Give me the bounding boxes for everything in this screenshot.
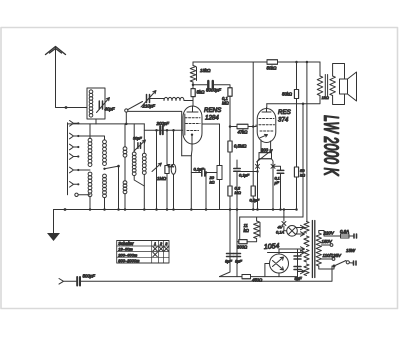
coil L2b <box>88 172 92 176</box>
svg-text:RENS: RENS <box>204 107 222 114</box>
wire cathode cap <box>273 166 281 170</box>
band switch arm S1 <box>103 168 105 170</box>
terminal 500pF input <box>59 279 77 285</box>
antenna coil L1 <box>89 90 93 94</box>
wire fuse to terminal <box>349 235 354 237</box>
wire bypass link <box>241 171 258 173</box>
wire choke to grid cap <box>184 101 193 107</box>
switch contact <box>70 154 78 160</box>
junction on ground bus <box>143 208 146 211</box>
junction on ground bus <box>166 208 169 211</box>
capacitor 8uF a <box>227 254 234 257</box>
wire HV arrows <box>289 247 305 251</box>
svg-text:200–600m: 200–600m <box>117 252 138 257</box>
junction on ground bus <box>190 208 193 211</box>
wire pickup line a <box>166 130 168 165</box>
wire L3 bottom to bus <box>104 198 106 210</box>
capacitor 0.5uF block <box>251 186 255 196</box>
svg-text:μF: μF <box>274 181 280 185</box>
output transformer secondary <box>330 76 336 96</box>
junction on ground bus <box>252 208 255 211</box>
tube RENS 1284 plate line <box>184 114 186 135</box>
wire coupling column top <box>252 62 254 127</box>
capacitor 5uF b <box>294 267 301 270</box>
trimmer capacitor 40pF <box>99 101 102 109</box>
svg-text:110/125V: 110/125V <box>323 253 343 258</box>
wire rail top to coil <box>68 123 145 125</box>
wire L4 middle <box>124 157 126 181</box>
resistor 11k zigzag <box>254 221 260 239</box>
svg-text:40pF: 40pF <box>105 107 115 112</box>
svg-text:210pF: 210pF <box>142 104 156 109</box>
capacitor 500pF <box>77 277 80 286</box>
wire B+ rail right <box>278 61 321 63</box>
capacitor 5000pF <box>208 81 213 89</box>
tube RENS 1284 envelope <box>183 106 202 144</box>
svg-text:800–2000m: 800–2000m <box>118 258 140 263</box>
svg-text:500pF: 500pF <box>83 274 96 279</box>
wire 0.5uF to bus <box>252 196 254 210</box>
svg-text:50kΩ: 50kΩ <box>282 92 293 97</box>
wire grid return riser <box>128 111 181 155</box>
junction on ground bus <box>272 208 275 211</box>
coil L3b <box>103 174 107 178</box>
svg-text:15kΩ: 15kΩ <box>200 68 211 73</box>
wire ground bus <box>54 209 297 211</box>
wire S2 drop <box>125 112 127 124</box>
wire L5 bottom merge <box>134 175 144 186</box>
tube RENS 1284 grid cap <box>187 106 198 112</box>
antenna <box>46 47 66 55</box>
switch contact <box>70 167 78 173</box>
wire L5 top <box>133 124 135 152</box>
wire rect plate <box>268 250 305 254</box>
wire rect cathode <box>265 264 270 277</box>
svg-text:220V: 220V <box>323 231 335 236</box>
tube RES 374 filament arrow <box>260 134 268 137</box>
svg-text:300Ω: 300Ω <box>237 245 248 250</box>
wire B+ rail <box>193 61 267 63</box>
switch contact <box>70 182 78 188</box>
power transformer primary <box>316 233 321 266</box>
junction on ground bus <box>103 208 106 211</box>
wire lamp feed <box>283 210 285 222</box>
svg-text:50kΩ: 50kΩ <box>267 66 278 71</box>
node cap junction <box>205 171 208 174</box>
svg-text:200pF: 200pF <box>156 121 170 126</box>
capacitor 0.1uF a <box>202 169 205 176</box>
coil L4b <box>123 181 127 185</box>
wire RES cathode leads <box>260 140 262 153</box>
junction on ground bus <box>236 208 239 211</box>
wire switch rail <box>67 123 69 195</box>
node B+ junctions <box>295 61 298 64</box>
junction on ground bus <box>124 208 127 211</box>
wire plate feed top <box>192 62 194 66</box>
svg-text:200: 200 <box>260 148 269 153</box>
wire HV arrow low <box>298 269 305 273</box>
wire ground branch <box>53 210 55 234</box>
variable resistor 1M arrow <box>152 163 162 172</box>
power transformer core <box>312 221 314 278</box>
wire speaker loop <box>333 64 345 105</box>
tube RES 374 envelope <box>257 109 276 143</box>
terminal T.A. oval <box>171 164 176 174</box>
svg-text:1284: 1284 <box>205 115 219 122</box>
switch contact top <box>70 121 78 127</box>
switch contact S2 <box>125 109 128 112</box>
wire 15k junction <box>192 82 194 89</box>
wire 0.1M down <box>229 96 231 141</box>
wire 0.5M down <box>229 152 231 186</box>
resistor 0.2M <box>228 186 232 196</box>
wire primary bottom <box>319 266 334 269</box>
power transformer HV winding <box>304 250 309 263</box>
wire RENS cathode branch <box>191 172 201 174</box>
resistor 20k <box>217 166 222 180</box>
capacitor 200pF <box>160 126 163 134</box>
wire 47k to RES grid <box>248 126 256 128</box>
wire OT primary bottom <box>267 96 320 104</box>
tube 1054 filament arrows <box>273 257 284 270</box>
tube RENS 1284 cathode <box>191 134 193 136</box>
node ground-bus junction <box>64 208 67 211</box>
wire lamp to winding a <box>296 225 305 229</box>
wire 300 left <box>237 241 239 243</box>
junction on ground bus <box>172 208 175 211</box>
resistor 50k mid <box>294 90 298 99</box>
switch table row1 crosses <box>153 247 157 251</box>
svg-text:MΩ: MΩ <box>222 101 229 106</box>
cathode bypass marks <box>256 164 260 168</box>
resistor 300 <box>239 240 247 244</box>
switch contact 2 <box>70 133 78 139</box>
wire L1 to band switch <box>95 119 97 124</box>
svg-text:kΩ: kΩ <box>244 228 250 233</box>
wire filter col a <box>220 210 231 277</box>
coil L6 <box>142 153 146 157</box>
dial lamp 4V 0.1A <box>287 226 298 237</box>
lamp cross mark <box>282 222 286 226</box>
wire coupling column bottom <box>252 127 254 187</box>
svg-text:374: 374 <box>278 117 289 124</box>
svg-text:0,1μF: 0,1μF <box>239 173 250 178</box>
junction on ground bus <box>117 208 120 211</box>
wire L6 bottom to bus <box>143 174 145 209</box>
node coupling junction <box>252 125 255 128</box>
wire RES plate <box>266 104 268 108</box>
tube RES 374 grid bar <box>262 108 271 113</box>
wire RES grid <box>255 125 257 127</box>
wire tap 150V <box>321 244 330 246</box>
variable resistor 200 <box>259 153 272 159</box>
svg-text:1054: 1054 <box>264 243 280 251</box>
svg-text:1MΩ: 1MΩ <box>157 176 167 181</box>
wire 5k to grid cap <box>192 97 194 101</box>
RF choke L7 <box>164 97 184 100</box>
wire primary top tap <box>319 231 341 237</box>
wire cap to 20k <box>205 172 217 174</box>
node 47k junction <box>229 125 232 128</box>
wire antenna lead-in <box>56 47 88 108</box>
resistor 5k <box>191 89 195 97</box>
svg-text:5kΩ: 5kΩ <box>197 90 206 95</box>
wire L4 bottom to bus <box>124 194 126 210</box>
wire 47k left <box>230 126 237 128</box>
coil L4a <box>123 147 127 151</box>
switch contact with circle <box>75 193 78 196</box>
svg-text:0,1μF: 0,1μF <box>194 167 205 172</box>
wire L2 tap <box>78 169 90 171</box>
resistor 47k <box>237 124 248 128</box>
svg-text:0,1A: 0,1A <box>276 230 285 235</box>
wire OT primary top <box>319 62 321 76</box>
wire L2 bottom to bus <box>89 197 91 210</box>
wire 5uF column <box>297 249 299 277</box>
ground <box>47 233 60 241</box>
switch table row2 cross <box>153 252 157 256</box>
svg-text:Schalter: Schalter <box>118 241 134 246</box>
wire B+ to OT area <box>302 104 304 217</box>
svg-text:kΩ: kΩ <box>210 180 215 185</box>
svg-text:RES: RES <box>278 109 292 116</box>
capacitor 0.1uF b <box>234 169 241 172</box>
wire subrail <box>240 216 303 218</box>
resistor on pickup line <box>165 166 169 174</box>
power transformer winding b <box>304 236 309 247</box>
resistor 0.5M <box>228 141 232 152</box>
wire pickup line b <box>173 130 175 164</box>
wire 0.2M to bus <box>229 196 231 210</box>
svg-text:15W: 15W <box>346 248 356 253</box>
wire rect bottom <box>278 273 280 277</box>
svg-text:0,6A: 0,6A <box>340 229 349 234</box>
wire lamp left <box>284 226 287 231</box>
tube RENS 1284 grids <box>185 118 200 131</box>
resistor 15k zigzag <box>190 66 196 83</box>
svg-text:1: 1 <box>154 242 156 246</box>
resistor 50k top <box>267 60 278 64</box>
wire 11k top <box>256 217 258 221</box>
junction on ground bus <box>295 208 298 211</box>
svg-text:MΩ: MΩ <box>235 190 241 195</box>
resistor 450 <box>242 275 251 279</box>
wire lamp to winding b <box>296 232 305 236</box>
wire coupling top <box>193 84 208 86</box>
svg-text:5000pF: 5000pF <box>206 88 221 93</box>
fuse <box>341 234 350 238</box>
junction on ground bus <box>155 208 158 211</box>
coil L3a <box>103 140 107 144</box>
junction on ground bus <box>229 208 232 211</box>
wire coupling to 0.1M <box>213 85 230 88</box>
junction on ground bus <box>89 208 92 211</box>
junction on ground bus <box>279 208 282 211</box>
wire cathode left leg <box>258 159 260 210</box>
svg-text:0,5MΩ: 0,5MΩ <box>234 144 247 149</box>
label LW 2000 K <box>319 115 342 176</box>
power transformer HV winding b <box>304 264 309 276</box>
wire screen column <box>296 62 298 90</box>
junction on ground bus <box>283 208 286 211</box>
wire 20k to bus <box>219 180 221 210</box>
capacitor 5uF a <box>294 256 301 259</box>
output transformer primary <box>317 76 323 96</box>
output transformer core <box>325 75 327 98</box>
wire tap 110V <box>321 258 332 260</box>
wire 450 rail <box>220 276 298 278</box>
switch table frame <box>117 241 169 264</box>
svg-text:8μF: 8μF <box>235 259 242 264</box>
wire subrail drop <box>239 217 241 242</box>
tube 1054 rectifier <box>270 254 289 273</box>
coil L2a <box>88 138 92 142</box>
wire 210pF to grid choke <box>150 99 164 101</box>
svg-text:LW 2000 K: LW 2000 K <box>319 115 342 176</box>
wire L2 top lead <box>89 124 91 139</box>
svg-text:30pF: 30pF <box>133 137 142 141</box>
power transformer heater winding <box>304 222 309 234</box>
wire cathode right leg <box>272 159 274 210</box>
junction on ground bus <box>256 208 259 211</box>
wire arm to bus <box>118 166 120 209</box>
svg-text:1kΩ: 1kΩ <box>322 95 329 100</box>
wire screen column3 <box>296 177 298 210</box>
node grid return taps <box>166 129 169 132</box>
resistor 0.1M <box>228 88 232 97</box>
wire screen column2 <box>296 99 298 168</box>
node antenna junction <box>65 106 68 109</box>
tube RES 374 grids <box>259 119 275 132</box>
svg-text:47kΩ: 47kΩ <box>238 130 249 135</box>
wire RENS cathode to bus <box>182 156 192 210</box>
coil L5 <box>132 152 136 156</box>
capacitor 8uF b <box>234 254 241 257</box>
wire filter col b <box>236 210 238 277</box>
wire 20k column <box>219 124 221 166</box>
wire L4 top <box>124 124 126 147</box>
speaker <box>340 79 348 94</box>
mains switch <box>333 265 336 268</box>
antenna coil L1 box <box>87 88 105 119</box>
trimmer capacitor 30pF <box>138 143 141 149</box>
wire volume column <box>155 129 158 132</box>
resistor 50k lower <box>294 167 298 177</box>
wire 0.1uF b <box>236 160 238 169</box>
wire RENS side lead <box>202 123 220 125</box>
svg-text:0,5μF: 0,5μF <box>250 199 260 203</box>
wire L6 top <box>143 124 145 153</box>
switch contact <box>70 144 78 150</box>
wire heater drop <box>306 62 308 222</box>
wire mains return <box>80 266 332 281</box>
svg-text:19–50m: 19–50m <box>118 247 133 252</box>
junction on ground bus <box>205 208 208 211</box>
capacitor 210pF <box>147 95 150 103</box>
wire grid return <box>144 129 184 131</box>
wire 11k bottom <box>247 239 257 242</box>
capacitor cathode 0.1uF <box>277 170 284 173</box>
svg-text:8μF: 8μF <box>225 259 232 264</box>
